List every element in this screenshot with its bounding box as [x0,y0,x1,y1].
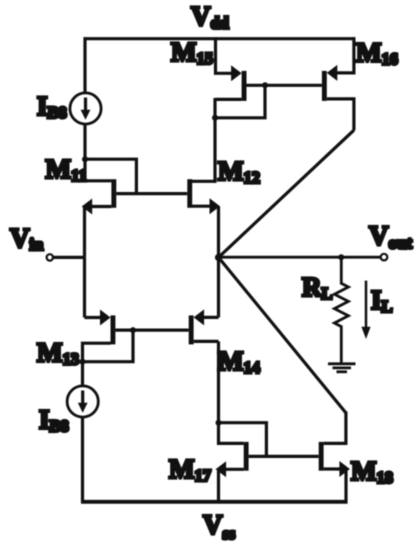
junction dot M15 drain [212,115,218,121]
transistor M11 [82,159,117,214]
svg-text:IB8: IB8 [37,91,67,122]
transistor M18 [319,442,350,477]
wire M14 drain to M17 node [217,341,220,424]
wire Vss rail [81,500,348,504]
junction dot RL tap [338,254,344,260]
transistor M15 [215,37,247,101]
svg-text:M17: M17 [169,454,211,485]
load current arrow IL [361,281,370,339]
svg-text:Vout: Vout [369,221,412,253]
wire M11 source to Vin node [83,207,86,258]
wire M13 drain to IB8 bottom [81,362,84,387]
wire Vdd rail to IB8 top [83,37,86,94]
wire Vdd rail [84,37,356,40]
wire gate M11 to M12 [116,192,187,195]
wire M18 drain vertical [344,412,347,445]
current source IB8 (top) [70,93,101,124]
wire M18 source to Vss [344,469,347,503]
wire M15 diode loop [215,85,265,118]
transistor M16 [322,37,354,130]
svg-text:Vss: Vss [203,510,236,544]
svg-text:M13: M13 [37,338,79,369]
transistor M17 [216,423,249,478]
svg-text:RL: RL [302,272,333,303]
wire M13 diode loop [83,330,134,362]
wire gate M15 to M16 [247,84,322,87]
resistor RL [334,257,348,363]
transistor M13 [83,310,116,361]
junction dot M11 drain node [82,156,88,162]
svg-text:M18: M18 [351,456,393,487]
svg-text:Vdd: Vdd [191,1,229,33]
wire M15 drain column to M12 drain [213,98,216,183]
wire Vin node to M13 source [83,257,86,317]
svg-text:M14: M14 [218,346,260,377]
wire gate M17 to M18 [249,455,319,458]
junction dot M17 drain node [216,420,222,426]
node output dot [215,254,222,261]
svg-text:M12: M12 [218,156,260,187]
wire M16 drain diagonal to output node [219,130,354,257]
wire Vin terminal to left column [53,256,85,259]
svg-text:IB8: IB8 [39,405,69,436]
wire M17 source to Vss [217,469,220,503]
svg-text:M15: M15 [171,37,213,68]
wire M11 diode loop [85,159,136,193]
wire IB8 top to M11 drain node [83,123,86,161]
wire output node diagonal to M18 drain [219,257,346,413]
current source IB8 (bottom) [67,386,98,417]
wire M12 source to output node [217,207,220,259]
junction dot M13 gate [130,327,136,333]
ground [328,364,356,372]
wire output line to Vout [219,256,381,259]
wire gate M13 to M14 [115,329,188,332]
terminal Vin [47,254,53,260]
transistor M12 [187,179,220,214]
transistor M14 [189,309,219,344]
svg-text:IL: IL [371,285,393,316]
wire IB8 bottom to Vss rail [81,416,84,503]
svg-text:M16: M16 [356,38,398,69]
junction dot M13 drain [80,359,86,365]
svg-text:M11: M11 [46,154,87,185]
wire output node to M14 source [217,257,220,317]
junction dot gate line [262,82,268,88]
terminal Vout [381,254,388,261]
svg-text:Vin: Vin [10,223,43,254]
wire M17 diode loop [219,423,267,457]
